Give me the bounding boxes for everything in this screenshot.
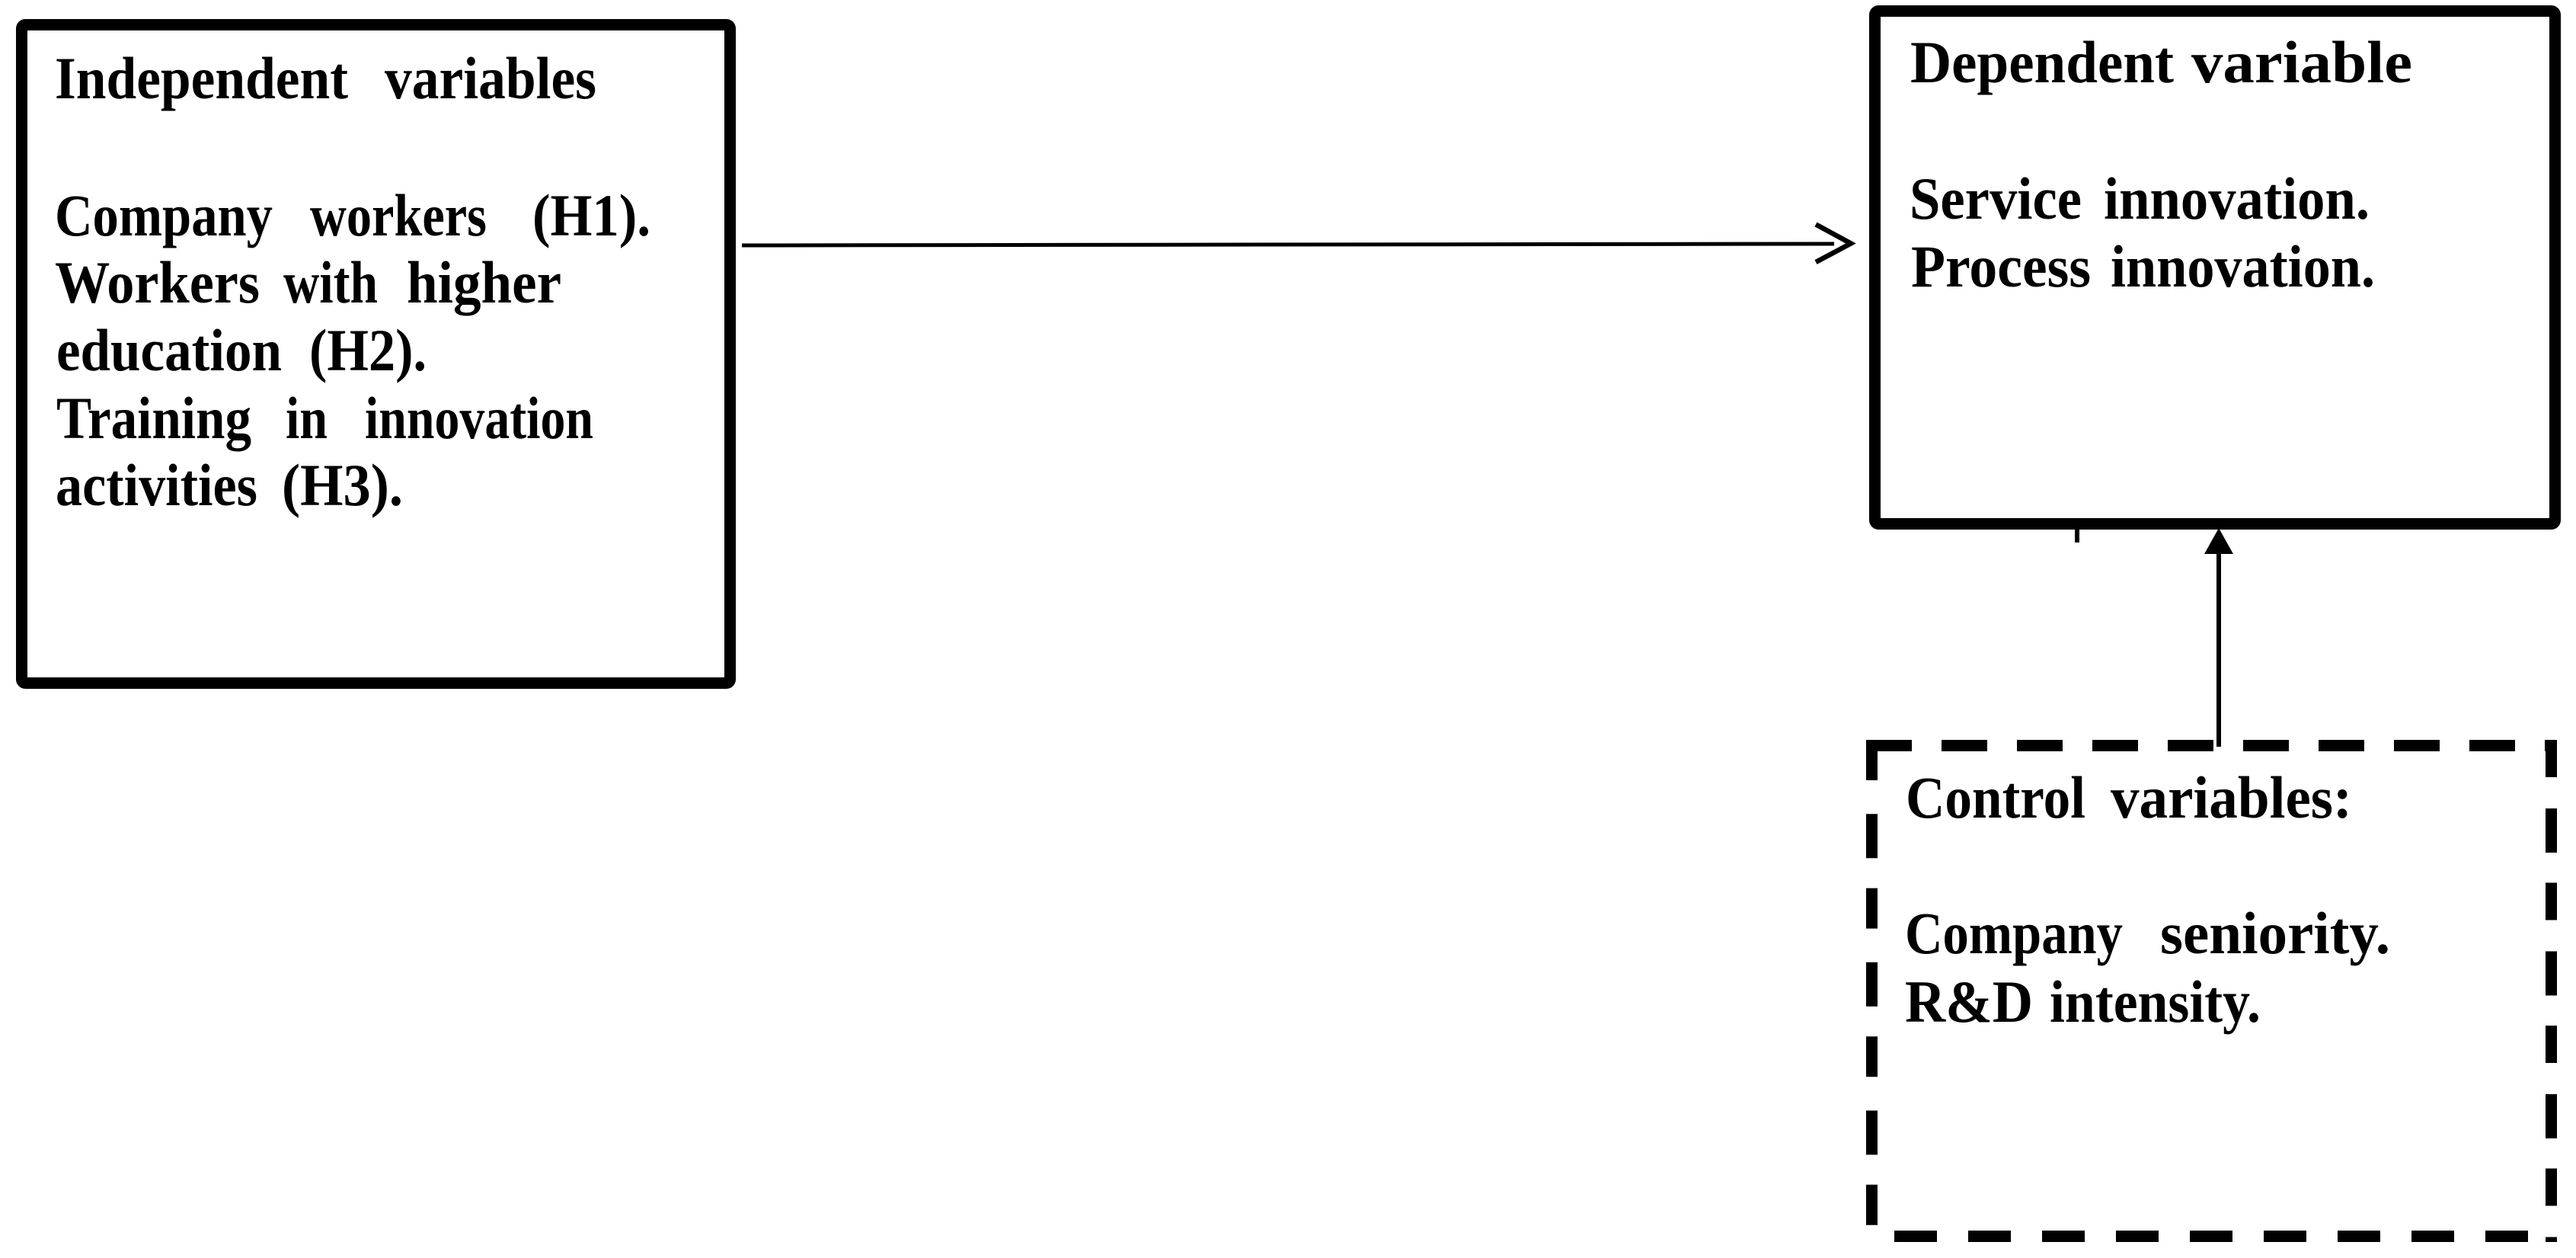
svg-text:seniority.: seniority. bbox=[2160, 900, 2390, 966]
arrowhead: filled triangle pointing up bbox=[2204, 528, 2233, 554]
svg-text:innovation: innovation bbox=[365, 385, 593, 451]
label: "Company workers (H1)." bbox=[55, 182, 650, 248]
svg-text:(H2).: (H2). bbox=[309, 317, 427, 383]
svg-text:Service: Service bbox=[1910, 165, 2082, 232]
svg-text:(H3).: (H3). bbox=[282, 452, 403, 518]
svg-text:Process: Process bbox=[1911, 233, 2091, 299]
svg-text:higher: higher bbox=[407, 249, 561, 315]
svg-text:R&D: R&D bbox=[1905, 968, 2033, 1035]
arrowhead: open chevron pointing right bbox=[1816, 225, 1851, 263]
box: Independent variables (solid border) bbox=[22, 25, 730, 683]
svg-text:Dependent: Dependent bbox=[1910, 29, 2174, 95]
label: "activities (H3)." bbox=[56, 452, 403, 518]
svg-text:with: with bbox=[283, 249, 378, 315]
svg-text:Company: Company bbox=[1905, 900, 2123, 966]
label: "Dependent variable" heading bbox=[1910, 29, 2412, 95]
svg-text:variable: variable bbox=[2191, 29, 2412, 95]
label: "Workers with higher" bbox=[55, 249, 561, 315]
label: "Training in innovation" bbox=[56, 385, 593, 451]
box: Dependent variable (solid border) bbox=[1875, 11, 2555, 524]
svg-text:(H1).: (H1). bbox=[532, 182, 650, 248]
label: "Control variables:" heading bbox=[1906, 764, 2352, 831]
svg-text:innovation.: innovation. bbox=[2111, 233, 2375, 299]
svg-text:in: in bbox=[286, 385, 328, 451]
label: "Independent variables" heading bbox=[55, 45, 596, 111]
svg-text:Training: Training bbox=[56, 385, 251, 451]
label: "education (H2)." bbox=[56, 317, 427, 383]
svg-text:activities: activities bbox=[56, 452, 257, 518]
svg-text:education: education bbox=[56, 317, 282, 383]
svg-text:intensity.: intensity. bbox=[2050, 968, 2261, 1035]
label: "Service innovation." bbox=[1910, 165, 2370, 232]
tick: short stray vertical mark below Dependent box bbox=[2075, 529, 2079, 543]
svg-text:Independent: Independent bbox=[55, 45, 348, 111]
svg-text:variables:: variables: bbox=[2111, 764, 2352, 831]
wire: vertical arrow shaft from Control box to Dependent box bbox=[2216, 550, 2221, 747]
svg-text:Workers: Workers bbox=[55, 249, 260, 315]
label: "Process innovation." bbox=[1911, 233, 2375, 299]
svg-text:Company: Company bbox=[55, 182, 273, 248]
label: "Company seniority." bbox=[1905, 900, 2390, 966]
label: "R&D intensity." bbox=[1905, 968, 2261, 1035]
box: Control variables (dashed border) bbox=[1866, 740, 2557, 1242]
svg-text:Control: Control bbox=[1906, 764, 2085, 831]
svg-text:variables: variables bbox=[385, 45, 596, 111]
svg-text:workers: workers bbox=[310, 182, 487, 248]
svg-text:innovation.: innovation. bbox=[2104, 165, 2370, 232]
wire: horizontal arrow shaft from Independent box to Dependent box bbox=[742, 244, 1834, 245]
